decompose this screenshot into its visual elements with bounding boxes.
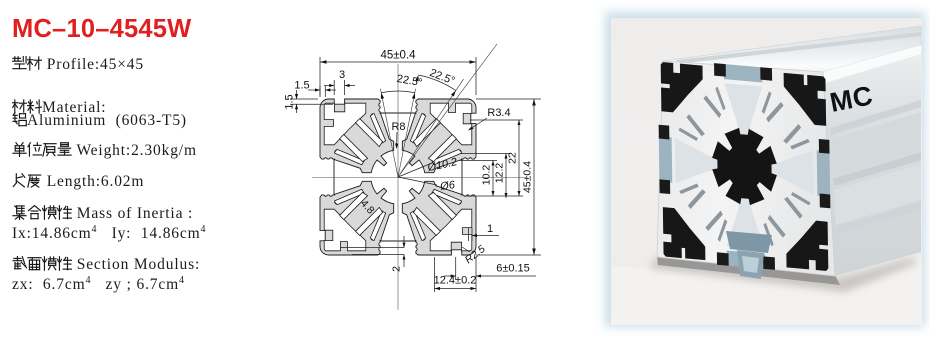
photo slot recess bottom face [727,250,766,268]
photo funnels (light) [724,83,763,141]
dim 45±0.4 top [319,57,321,95]
svg-text:3: 3 [339,69,345,81]
photo corner cavity bottom-left [664,209,703,258]
web slivers top-right [432,149,462,164]
photo corner cavity top-left [662,64,701,113]
photo corner cavity top-right [785,75,824,124]
svg-text:Ø6: Ø6 [438,179,456,193]
dim 1 (lip) [468,228,470,241]
extrusion bottom dark band [657,256,840,285]
label Φ10.2 (leader) [398,163,432,177]
svg-text:1: 1 [487,223,493,235]
label Φ6 (leader) [398,177,437,185]
svg-text:12.2: 12.2 [494,163,506,184]
dim 6±0.15 bottom right [455,257,457,280]
extrusion side surface [823,45,921,276]
web slivers bottom-right [410,211,425,241]
extrusion front face [657,61,835,276]
svg-text:1.5: 1.5 [294,80,309,92]
bottom slot nut hanging below face [726,231,772,253]
angle construction lines [380,89,398,177]
spec text lines [12,56,144,74]
svg-text:1.5: 1.5 [284,94,296,109]
title MC-10-4545W [12,15,191,44]
top surface chamfer streak [676,32,921,64]
photo central gear [712,125,778,207]
photo slot recess left face [659,136,672,182]
photo slot recess right face [817,150,830,196]
photo corner cavity bottom-right [787,220,826,269]
photo background [611,18,922,325]
svg-text:45±0.4: 45±0.4 [380,50,416,62]
svg-text:45±0.4: 45±0.4 [522,161,534,193]
svg-text:6±0.15: 6±0.15 [496,263,530,275]
dim 3 (notch width) [333,80,335,95]
svg-text:22: 22 [507,152,519,164]
svg-text:2: 2 [391,266,403,272]
dim 2 (bottom lip) [340,247,404,249]
dim 22.5° arc 1 [381,91,415,93]
svg-text:22.5°: 22.5° [428,67,456,87]
table surface [611,256,922,325]
side slot grooves [830,100,921,135]
profile cross-section body [320,99,476,255]
photo panel shadow [605,12,925,327]
shadow under extrusion [650,258,920,292]
photo slot recess top face [724,64,763,82]
corner cavity top-left [324,103,366,145]
dim 12.4±0.2 bottom [434,257,436,292]
dim 1.5 horizontal (wall) [319,86,321,97]
web slivers bottom-left [335,189,365,204]
svg-text:R8: R8 [391,121,405,133]
side highlight [823,45,921,83]
dim 22.5° arc 2 [418,75,456,91]
right side dims 10.2 / 12.2 / 22 / 45±0.4 [476,98,541,100]
central bore with funnels [334,113,462,241]
corner cavity bottom-right [430,209,472,251]
svg-text:R3.4: R3.4 [487,107,510,119]
web slivers top-left [370,114,385,144]
corner cavity top-right [430,103,472,145]
svg-text:10.2: 10.2 [481,165,493,186]
centerlines [312,177,526,179]
extrusion top surface [663,26,921,72]
corner cavity bottom-left [324,209,366,251]
dim 1.5 vertical (notch depth) [290,98,318,100]
